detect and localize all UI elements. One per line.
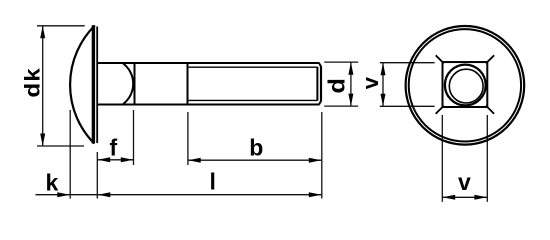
bolt end chamfer inner line [316,67,318,101]
shank top edge [97,62,319,64]
v bottom extension line [380,105,435,107]
bolt head face thin line [96,27,98,144]
k left arrow (outside pointing right) [57,192,70,197]
square neck (end view) [443,62,488,107]
v bottom left arrow [443,195,456,200]
svg-text:v: v [358,76,383,89]
bearing face extension line [96,152,98,199]
bolt end face line [320,67,322,101]
k and l dimension line [36,194,322,196]
l b right extension line [321,112,323,199]
shank bottom edge [97,103,319,105]
d bottom extension line [324,105,358,107]
l right arrow (pointing right) [309,192,322,197]
svg-text:v: v [458,169,471,195]
v left bottom arrow [381,94,386,107]
svg-text:dk: dk [21,67,44,97]
d top extension line [324,61,358,63]
b left extension line [187,112,189,165]
d top arrow [348,62,353,75]
v left vertical extension line [441,115,443,202]
dk top extension line [37,25,85,27]
v top extension line [380,62,435,64]
svg-text:f: f [110,134,118,160]
head outer circle (end view) [406,26,525,145]
bolt end top chamfer diagonal [319,63,321,67]
k extension line (dome apex) [69,110,71,199]
square corner tick top-left [436,55,444,63]
svg-text:b: b [249,135,263,161]
square corner tick bottom-left [436,106,444,114]
v left dimension line [382,63,384,107]
svg-text:l: l [210,169,216,195]
square corner tick bottom-right [486,106,494,114]
f right extension line [133,110,135,165]
square neck arc [123,64,133,105]
thread root bottom line [189,99,318,101]
dk dimension line [42,26,44,146]
head inner circle (end view) [409,29,521,141]
v horizontal dimension line [442,196,487,198]
thread root circle (end view) [449,69,483,103]
v bottom right arrow [474,195,487,200]
shank circle (end view) [445,65,486,106]
b dimension line [188,159,321,161]
l left arrow (pointing left) [98,192,111,197]
f right arrow [121,157,134,162]
d dimension line [350,62,352,106]
svg-text:d: d [325,78,351,93]
f dimension line [97,159,133,161]
bolt end bottom chamfer diagonal [319,101,321,105]
f left arrow [98,157,111,162]
thread start line [187,63,189,105]
dk bottom extension line [37,145,84,147]
v left top arrow [381,63,386,75]
v right vertical extension line [486,115,488,202]
square neck end line [134,63,136,105]
bolt head dome arc [70,26,95,144]
b right arrow [309,158,322,163]
d bottom arrow [348,94,353,107]
dk top arrow [40,26,45,39]
dk bottom arrow [40,134,45,147]
bolt head face thick line [92,25,95,143]
svg-text:k: k [46,169,59,195]
square corner tick top-right [486,55,494,63]
thread root top line [189,66,318,68]
b left arrow [188,158,201,163]
